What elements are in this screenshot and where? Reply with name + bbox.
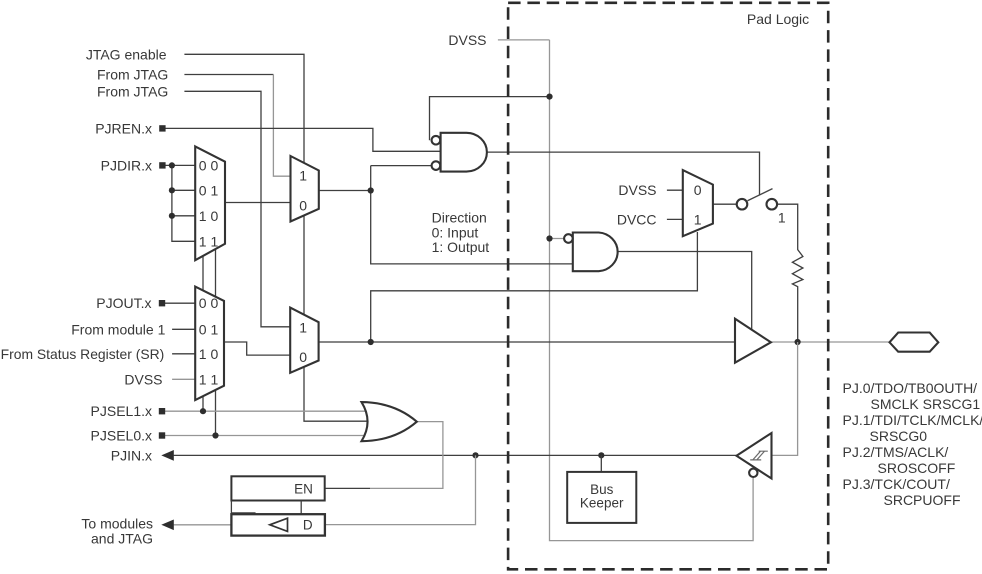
svg-text:DVSS: DVSS (618, 182, 656, 198)
svg-text:PJSEL1.x: PJSEL1.x (91, 403, 152, 419)
nand U6 body (573, 233, 618, 272)
mux U1 PJDIR 4:1 (195, 146, 225, 260)
node DVSS/NAND U6 junction (546, 235, 552, 241)
wire DVSS to mux U3 input 11 (172, 378, 197, 380)
svg-text:PJ.2/TMS/ACLK/: PJ.2/TMS/ACLK/ (843, 444, 949, 460)
arrowhead to modules (161, 519, 174, 530)
wire PJSEL1.x to OR gate (162, 410, 371, 412)
node PJDIR junction 3 (169, 213, 175, 219)
svg-text:From module 1: From module 1 (71, 321, 165, 337)
svg-text:1 0: 1 0 (199, 346, 219, 362)
wire PJSEL0.x to OR gate (162, 435, 370, 437)
schmitt input buffer U10 (737, 433, 772, 479)
wire PJDIR.x to mux U1 input 01 (172, 189, 197, 191)
arrowhead PJIN.x (161, 450, 174, 461)
EN to D connector left (231, 501, 255, 515)
wire From JTAG (upper) to mux U2 input 1 (184, 74, 273, 76)
svg-text:From Status Register (SR): From Status Register (SR) (1, 346, 165, 362)
svg-text:DVSS: DVSS (124, 371, 162, 387)
wire select line PJSEL1 up through muxes U1/U3 (202, 245, 204, 411)
svg-text:PJREN.x: PJREN.x (95, 120, 152, 136)
wire From Status Register to mux U3 input 10 (172, 353, 197, 355)
wire From module 1 to mux U3 input 01 (172, 328, 197, 330)
svg-text:1: Output: 1: Output (432, 239, 490, 255)
or gate U8 (362, 402, 417, 441)
wire mux U3 output to mux U4 input 0 (222, 342, 292, 355)
svg-text:PJ.1/TDI/TCLK/MCLK/: PJ.1/TDI/TCLK/MCLK/ (843, 412, 982, 428)
svg-text:To modules: To modules (81, 516, 153, 532)
mux U3 PJOUT 4:1 (195, 287, 224, 401)
wire output buffer to pad (768, 341, 891, 343)
svg-text:and JTAG: and JTAG (91, 531, 153, 547)
node PJDIR junction 2 (169, 187, 175, 193)
wire NAND U6 output to output buffer enable (618, 252, 752, 333)
svg-text:Pad Logic: Pad Logic (747, 11, 809, 27)
nand U6 input bubble (564, 234, 573, 243)
node data junction (368, 339, 374, 345)
mux U2 direction 2:1 (291, 156, 319, 222)
svg-text:Keeper: Keeper (580, 495, 624, 510)
wire schmitt output to PJIN.x (174, 454, 738, 456)
wire pad down to schmitt input (770, 342, 798, 455)
svg-text:Direction: Direction (432, 209, 487, 225)
svg-text:1: 1 (694, 211, 702, 227)
wire PJDIR.x to mux U1 input 00 (162, 164, 197, 166)
svg-text:From JTAG: From JTAG (97, 83, 168, 99)
pad hexagon (890, 333, 939, 352)
svg-text:0 0: 0 0 (199, 295, 219, 311)
wire PJREN.x to NAND U5 middle input (162, 128, 444, 151)
node PJDIR junction 1 (169, 162, 175, 168)
svg-text:0 1: 0 1 (199, 321, 219, 337)
svg-text:PJSEL0.x: PJSEL0.x (91, 428, 152, 444)
wire DVCC stub to mux U7 input 1 (667, 218, 685, 220)
node DVSS/NAND U5 junction (546, 94, 552, 100)
square PJSEL1.x (159, 408, 165, 414)
svg-text:DVCC: DVCC (617, 211, 657, 227)
wire D latch output to modules (174, 524, 232, 526)
wire mux U2 output direction net (315, 190, 371, 192)
svg-text:0: 0 (299, 349, 307, 365)
wire bus keeper drop (600, 455, 602, 472)
node bus keeper junction (598, 452, 604, 458)
nand U5 body (441, 133, 487, 172)
wire PJDIR.x down to mux U1 input 11 (172, 165, 197, 241)
schmitt enable bubble (749, 469, 757, 477)
wire mux U1 output to mux U2 input 0 (222, 202, 294, 204)
switch S1 right contact (767, 199, 778, 210)
svg-text:0: Input: 0: Input (432, 224, 479, 240)
schmitt hysteresis symbol (750, 451, 768, 460)
wire DVSS stub to mux U7 input 0 (667, 189, 685, 191)
svg-text:PJ.0/TDO/TB0OUTH/: PJ.0/TDO/TB0OUTH/ (843, 380, 978, 396)
D latch box (231, 514, 325, 535)
svg-text:1: 1 (299, 168, 307, 184)
SHAPES (195, 3, 938, 570)
svg-text:1 1: 1 1 (199, 371, 219, 387)
svg-text:0: 0 (694, 182, 702, 198)
EN latch box (231, 476, 324, 500)
wire data net up to mux U7 select (371, 232, 698, 342)
svg-text:EN: EN (294, 482, 313, 497)
svg-text:JTAG enable: JTAG enable (86, 46, 167, 62)
Bus Keeper box (567, 472, 636, 523)
wire OR gate output to EN (370, 422, 443, 489)
wire DVSS top label to rail (498, 39, 550, 41)
wire direction net to NAND U6 lower input (371, 166, 576, 264)
switch S1 lever (748, 189, 773, 201)
output buffer U9 (735, 319, 771, 363)
svg-text:DVSS: DVSS (448, 32, 486, 48)
switch S1 left contact (737, 199, 748, 210)
node PJSEL1 select junction (200, 408, 206, 414)
wire JTAG enable net (to mux selects and OR gate) (184, 54, 374, 421)
square PJREN.x (159, 125, 165, 131)
D latch clock triangle (270, 518, 288, 531)
svg-text:0 1: 0 1 (199, 182, 219, 198)
svg-text:SMCLK SRSCG1: SMCLK SRSCG1 (871, 396, 981, 412)
wire PJOUT.x to mux U3 input 00 (162, 302, 197, 304)
wire From JTAG (lower) to mux U4 input 1 (184, 91, 292, 326)
svg-text:PJDIR.x: PJDIR.x (101, 157, 152, 173)
mux U4 data 2:1 (290, 308, 318, 373)
svg-text:SRSCG0: SRSCG0 (870, 428, 928, 444)
svg-text:PJIN.x: PJIN.x (111, 447, 152, 463)
wire D latch input from pad net (325, 455, 476, 524)
wire DVSS rail stub to NAND U6 top bubble (550, 238, 568, 240)
square PJDIR.x (159, 162, 165, 168)
svg-text:D: D (303, 518, 313, 533)
node pad junction (795, 339, 801, 345)
nand U5 input bubbles (432, 136, 441, 145)
EN to D connector right (300, 501, 302, 515)
wire PJDIR.x to mux U1 input 10 (172, 215, 197, 217)
svg-text:PJOUT.x: PJOUT.x (96, 295, 151, 311)
svg-text:SROSCOFF: SROSCOFF (878, 460, 956, 476)
wire DVSS rail down and to schmitt enable bubble (550, 40, 754, 541)
wire EN latch enable segment (325, 487, 370, 489)
svg-text:1 0: 1 0 (199, 208, 219, 224)
svg-text:0 0: 0 0 (199, 158, 219, 174)
svg-text:0: 0 (299, 197, 307, 213)
svg-text:1 1: 1 1 (199, 233, 219, 249)
svg-text:SRCPUOFF: SRCPUOFF (884, 492, 961, 508)
Pad Logic dashed border (508, 3, 828, 570)
square PJSEL0.x (159, 432, 165, 438)
wire select line PJSEL0 up through muxes U1/U3 (215, 245, 217, 436)
wire mux U4 output to output buffer (315, 341, 737, 343)
wire direction net to NAND U5 lower bubble (371, 165, 434, 167)
svg-text:1: 1 (778, 209, 786, 225)
wire DVSS rail to NAND U5 top input (430, 97, 550, 141)
node PJSEL0 select junction (212, 432, 218, 438)
wire NAND U5 output to switch lever (486, 152, 760, 195)
svg-text:PJ.3/TCK/COUT/: PJ.3/TCK/COUT/ (843, 476, 950, 492)
wire switch to resistor R1 and down to pad net (775, 204, 803, 342)
node direction junction (368, 187, 374, 193)
svg-text:1: 1 (299, 319, 307, 335)
square PJOUT.x (159, 300, 165, 306)
mux U7 DVSS/DVCC 2:1 (683, 170, 713, 236)
svg-text:From JTAG: From JTAG (97, 67, 168, 83)
node D latch input junction (472, 452, 478, 458)
wire mux U7 output to switch (711, 203, 738, 205)
